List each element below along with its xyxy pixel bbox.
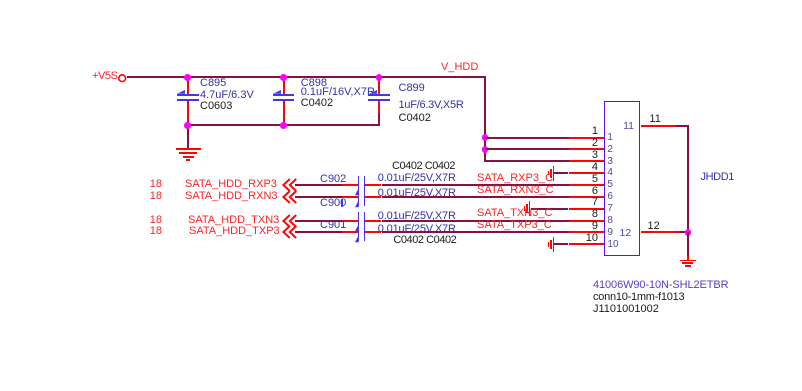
- wire V_HDD vertical drop: [484, 77, 486, 163]
- wire +V5S to V_HDD corner (top rail): [127, 76, 486, 78]
- signal name SATA_HDD_RXP3: [185, 179, 277, 190]
- off-page chevron TXP3: [282, 225, 298, 239]
- value label C0402 C0402 (top pair): [392, 161, 455, 172]
- capacitor C900 (row pin6): [320, 198, 346, 209]
- ground (pin7, rotated): [529, 201, 531, 216]
- wire pin3 net: [485, 160, 569, 162]
- value label C0402 C0402 (bottom pair): [393, 235, 456, 246]
- off-page chevron RXP3: [282, 178, 298, 192]
- value label 0.01uF/25V,X7R (pin5): [378, 173, 456, 184]
- part id J1101001002: [593, 304, 659, 315]
- wire pin2 net: [485, 148, 569, 150]
- capacitor C898: [283, 78, 285, 95]
- signal name SATA_HDD_TXN3: [188, 215, 279, 226]
- wire pin11 to pin12 vertical: [687, 125, 689, 234]
- part number 41006W90-10N-SHL2ETBR: [593, 280, 728, 291]
- pin number 6: [578, 186, 598, 197]
- power symbol +V5S: [92, 71, 118, 82]
- capacitor C899: [378, 78, 380, 95]
- capacitor (row pin8, unlabeled): [358, 212, 360, 230]
- wire pin11 net: [641, 125, 676, 127]
- off-page chevron RXN3: [282, 190, 298, 204]
- wire C895 to ground: [187, 125, 189, 148]
- wire pin4 net: [554, 172, 568, 174]
- ground (pin4, rotated): [553, 166, 555, 181]
- ground (below C895): [176, 148, 201, 150]
- pin number 1: [578, 126, 598, 137]
- pin number 5: [578, 174, 598, 185]
- wire pin12 to ground: [687, 232, 689, 255]
- value label 0.01uF/25V,X7R (pin9): [378, 224, 456, 235]
- ground (below pin12 net): [680, 260, 696, 262]
- net label V_HDD: [441, 62, 478, 73]
- connector inside pin numbers 1-10: [607, 133, 613, 143]
- wire RXP3 row to cap: [295, 184, 342, 186]
- pin number 2: [578, 138, 598, 149]
- wire pin7 net: [531, 208, 569, 210]
- wire TXN3 row to cap: [295, 220, 342, 222]
- connector inside pin number 12: [620, 228, 632, 239]
- off-page ref 18 (TXN3): [150, 215, 162, 226]
- connector JHDD1 body: [604, 101, 640, 256]
- junction node pin2 branch: [482, 146, 489, 153]
- ground (pin10, rotated): [553, 237, 555, 252]
- capacitor C902 (row pin5): [320, 174, 346, 185]
- net label SATA_RXN3_C: [477, 185, 554, 196]
- junction node pin12: [685, 229, 692, 236]
- net label SATA_TXP3_C: [477, 220, 552, 231]
- pin number 4: [578, 162, 598, 173]
- pin number 8: [578, 209, 598, 220]
- junction node pin1 branch: [482, 134, 489, 141]
- capacitor C895: [187, 78, 189, 95]
- signal name SATA_HDD_TXP3: [189, 226, 280, 237]
- pin number 11: [649, 114, 660, 125]
- off-page ref 18 (RXN3): [150, 191, 162, 202]
- wire pin1 net: [485, 137, 569, 139]
- capacitor C901 (row pin9): [320, 220, 346, 231]
- value label 0.01uF/25V,X7R (pin6): [378, 188, 456, 199]
- pin number 7: [578, 197, 598, 208]
- net label SATA_TXN3_C: [477, 208, 552, 219]
- net label SATA_RXP3_C: [477, 173, 553, 184]
- signal name SATA_HDD_RXN3: [185, 191, 278, 202]
- off-page ref 18 (RXP3): [150, 179, 162, 190]
- value label 0.01uF/25V,X7R (pin8): [378, 211, 456, 222]
- pin number 12: [648, 221, 660, 232]
- wire RXN3 row to cap: [295, 196, 342, 198]
- wire pin10 net: [554, 243, 568, 245]
- pin number 3: [578, 150, 598, 161]
- wire bottom rail: [188, 124, 380, 126]
- off-page chevron TXN3: [282, 214, 298, 228]
- pin number 9: [578, 221, 598, 232]
- connector inside pin number 11: [614, 121, 634, 132]
- part name conn10-1mm-f1013: [593, 292, 684, 303]
- junction dots on rails: [184, 74, 191, 81]
- off-page ref 18 (TXP3): [150, 226, 162, 237]
- wire pin12 net: [641, 231, 679, 233]
- wire TXP3 row to cap: [295, 231, 342, 233]
- connector reference JHDD1: [701, 172, 734, 183]
- pin number 10: [578, 233, 598, 244]
